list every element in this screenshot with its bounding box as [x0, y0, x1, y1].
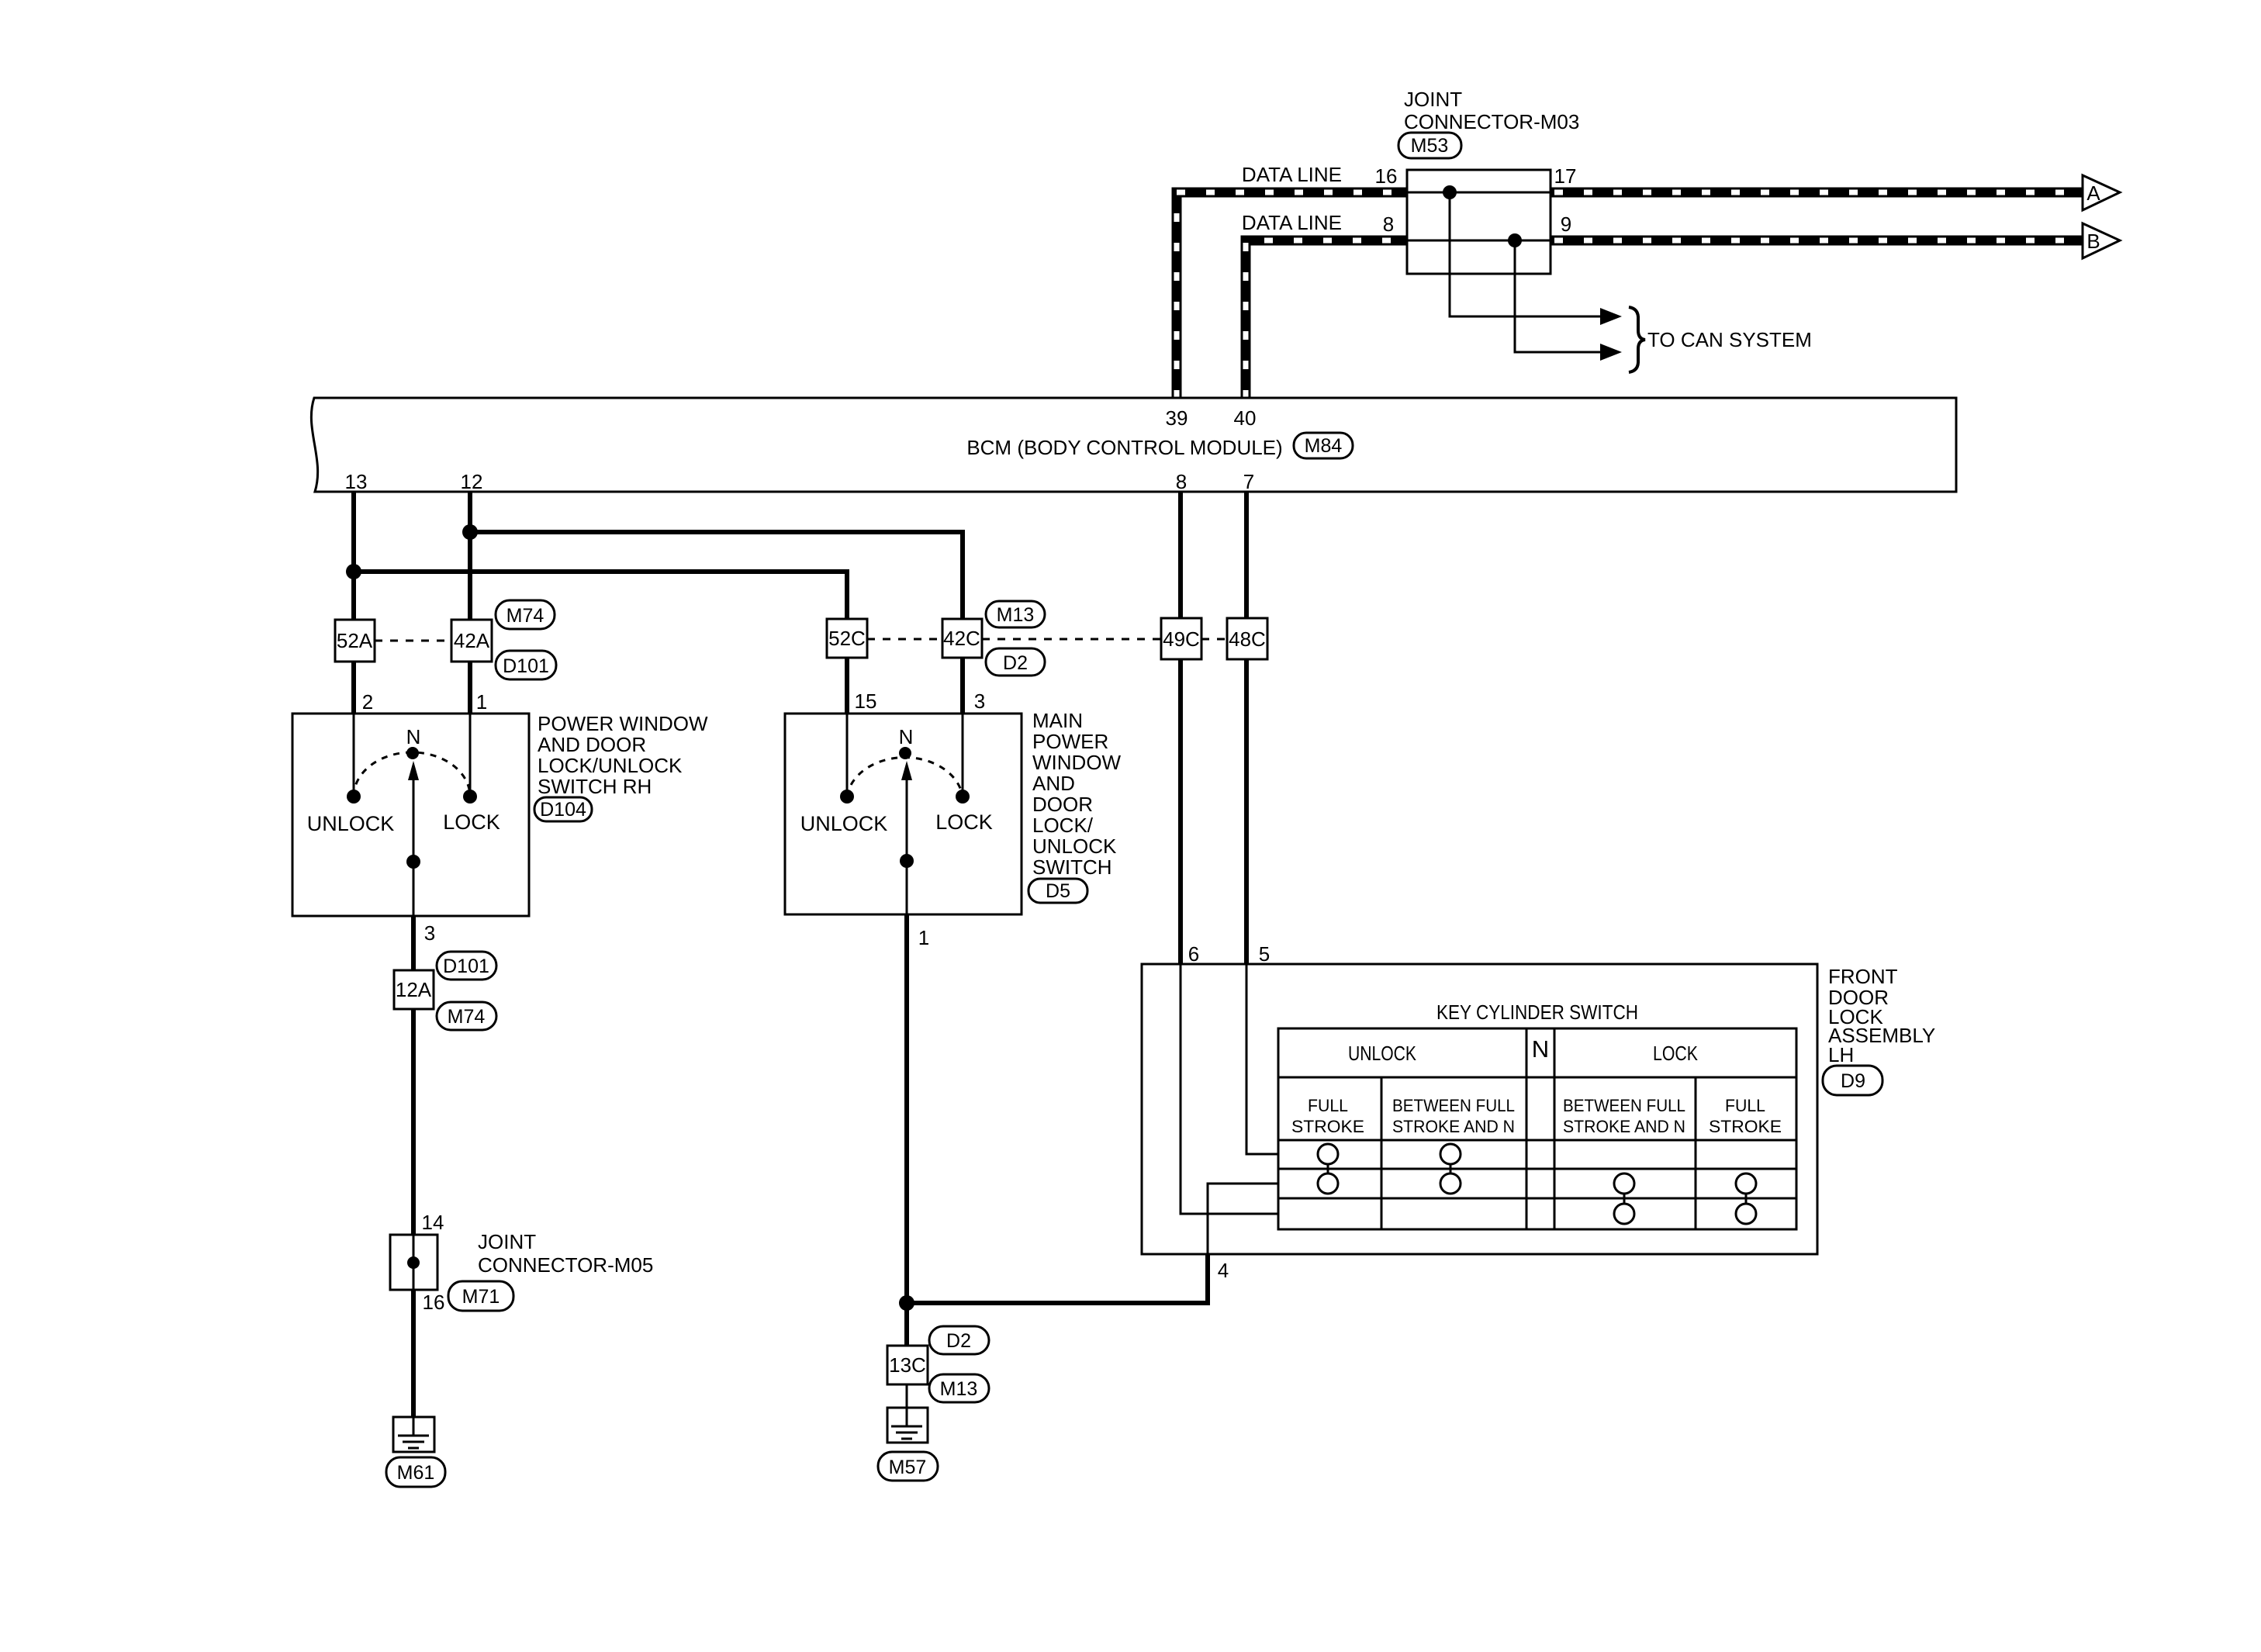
- connector oval D2 (13C): [929, 1326, 989, 1354]
- connector oval M53: [1398, 133, 1461, 158]
- connector oval M84: [1294, 433, 1353, 458]
- contact pair between full stroke and N unlock: [1450, 1154, 1452, 1184]
- connector oval M13: [986, 601, 1045, 627]
- svg-text:M13: M13: [997, 604, 1035, 626]
- connector oval D104: [534, 797, 592, 821]
- node pin13 branch: [346, 564, 361, 579]
- svg-text:STROKE: STROKE: [1709, 1117, 1782, 1136]
- ground symbol M61: [393, 1417, 434, 1452]
- svg-text:13C: 13C: [889, 1353, 926, 1377]
- svg-text:12A: 12A: [396, 978, 432, 1001]
- svg-text:STROKE AND N: STROKE AND N: [1563, 1117, 1685, 1136]
- svg-text:AND DOOR: AND DOOR: [538, 733, 646, 756]
- key cylinder switch table: [1278, 1028, 1796, 1229]
- svg-text:17: 17: [1554, 164, 1577, 188]
- power window and door lock/unlock switch RH box D104: [292, 714, 529, 916]
- svg-text:15: 15: [855, 689, 877, 713]
- node N RH: [406, 747, 419, 759]
- wire to CAN (from line B): [1515, 240, 1600, 352]
- wire pin15 to unlock contact: [846, 714, 849, 797]
- wire 52A to RH switch pin 2: [351, 662, 356, 714]
- svg-text:M74: M74: [448, 1006, 486, 1028]
- svg-text:52A: 52A: [337, 629, 373, 652]
- dashed connector link 42C-49C: [982, 638, 1161, 641]
- svg-text:M13: M13: [940, 1378, 978, 1400]
- unlock contact D5: [840, 790, 854, 804]
- wire pin2 to unlock contact: [353, 714, 355, 797]
- node pin12 branch: [462, 524, 478, 540]
- wire 48C to front door lock assembly pin 5: [1244, 659, 1249, 964]
- wire pin 5 to key cylinder row 1: [1246, 964, 1278, 1154]
- connector oval M61: [386, 1457, 445, 1487]
- connector oval M71: [448, 1281, 513, 1311]
- connector oval D101: [496, 651, 556, 679]
- wire 49C to front door lock assembly pin 6: [1178, 659, 1183, 964]
- svg-text:D101: D101: [503, 655, 549, 677]
- svg-text:STROKE: STROKE: [1291, 1117, 1364, 1136]
- svg-text:1: 1: [476, 690, 487, 714]
- svg-text:42A: 42A: [454, 629, 490, 652]
- common pole RH: [406, 855, 420, 869]
- dashed connector link 52A-42A: [375, 640, 451, 642]
- svg-text:UNLOCK: UNLOCK: [800, 812, 888, 835]
- svg-text:LOCK: LOCK: [935, 810, 993, 834]
- svg-text:FULL: FULL: [1308, 1096, 1348, 1115]
- svg-text:42C: 42C: [943, 627, 980, 650]
- switch arm RH (arrow): [413, 779, 415, 862]
- svg-text:M61: M61: [397, 1462, 435, 1484]
- arrow A (off-page connector): [2083, 175, 2120, 210]
- svg-text:MAIN: MAIN: [1032, 709, 1083, 732]
- svg-text:D2: D2: [946, 1330, 971, 1352]
- lock contact RH: [463, 790, 477, 804]
- wire data line A (shielded, BCM pin 39 to joint connector): [1177, 192, 1406, 399]
- svg-text:16: 16: [1375, 164, 1398, 188]
- svg-text:40: 40: [1234, 406, 1257, 430]
- wire D5 pin 1 to ground M57: [904, 914, 909, 1346]
- node ground junction: [899, 1295, 914, 1311]
- wire pin1 to lock contact: [469, 714, 472, 797]
- svg-text:POWER: POWER: [1032, 730, 1108, 753]
- node inside M05: [407, 1256, 420, 1269]
- node N D5: [899, 747, 911, 759]
- connector oval M74: [496, 600, 555, 629]
- switch throw arc D5: [847, 758, 963, 797]
- svg-text:48C: 48C: [1229, 627, 1266, 651]
- wire pin3 to lock contact: [962, 714, 964, 797]
- wire common pole to pin 1: [906, 861, 908, 914]
- wire branch from pin 13 to 52C: [354, 572, 847, 619]
- svg-text:M74: M74: [506, 605, 545, 627]
- front door lock assembly LH box D9: [1142, 964, 1817, 1254]
- connector terminal 42C: [942, 619, 982, 658]
- wire key cylinder pin 4 to D5 pin 1 wire: [907, 1254, 1208, 1303]
- connector terminal 52C: [827, 619, 867, 658]
- wire common pole to pin 3: [413, 862, 415, 916]
- node on line A: [1443, 185, 1457, 199]
- switch arm D5 (arrow): [906, 779, 908, 861]
- wire RH pin 3 to ground M61: [411, 916, 416, 1417]
- wire 42C to D5 pin 3: [960, 658, 965, 714]
- connector terminal 48C: [1227, 618, 1267, 659]
- ground symbol M57: [887, 1408, 928, 1443]
- svg-text:D101: D101: [443, 956, 489, 977]
- arrow B (off-page connector): [2083, 223, 2120, 258]
- svg-text:JOINT: JOINT: [1404, 88, 1462, 111]
- dashed connector link 52C-42C: [867, 638, 942, 641]
- svg-text:UNLOCK: UNLOCK: [307, 812, 395, 835]
- BCM (body control module) box M84: [311, 398, 1956, 492]
- svg-text:WINDOW: WINDOW: [1032, 751, 1122, 774]
- connector oval D9: [1823, 1066, 1882, 1095]
- connector terminal 52A: [335, 620, 375, 662]
- svg-text:LH: LH: [1828, 1043, 1854, 1066]
- svg-text:SWITCH: SWITCH: [1032, 855, 1112, 879]
- svg-text:52C: 52C: [828, 627, 866, 650]
- svg-text:FULL: FULL: [1725, 1096, 1765, 1115]
- wire inside M53 (line A): [1407, 192, 1551, 194]
- dashed connector link 49C-48C: [1201, 638, 1227, 641]
- wire BCM pin 13 to 52A: [351, 492, 356, 620]
- svg-text:5: 5: [1259, 942, 1270, 966]
- wire 42A to RH switch pin 1: [468, 662, 472, 714]
- wire to CAN (from line A): [1450, 192, 1600, 316]
- svg-text:N: N: [899, 725, 914, 748]
- wire pin 6 to key cylinder row 3: [1181, 964, 1278, 1214]
- unlock contact RH: [347, 790, 361, 804]
- wire branch from pin 12 to 42C: [470, 532, 963, 619]
- svg-text:BETWEEN FULL: BETWEEN FULL: [1392, 1096, 1515, 1115]
- svg-text:SWITCH RH: SWITCH RH: [538, 775, 652, 798]
- svg-text:3: 3: [424, 921, 435, 945]
- connector oval M13 (13C): [929, 1374, 989, 1402]
- svg-text:6: 6: [1188, 942, 1199, 966]
- svg-text:16: 16: [423, 1291, 445, 1314]
- svg-text:14: 14: [422, 1211, 444, 1234]
- svg-text:DOOR: DOOR: [1032, 793, 1093, 816]
- svg-text:39: 39: [1166, 406, 1188, 430]
- wire data line B (shielded, BCM pin 40 to joint connector): [1246, 240, 1406, 399]
- svg-text:CONNECTOR-M05: CONNECTOR-M05: [478, 1253, 653, 1277]
- svg-text:M84: M84: [1305, 435, 1343, 457]
- svg-text:8: 8: [1383, 213, 1394, 236]
- svg-text:AND: AND: [1032, 772, 1075, 795]
- node on line B: [1508, 233, 1522, 247]
- wire data line A (joint connector to arrow A): [1551, 188, 2083, 198]
- wire BCM pin 8 to 49C: [1178, 492, 1183, 618]
- svg-text:FRONT: FRONT: [1828, 965, 1898, 988]
- wire 13C to ground: [906, 1384, 908, 1408]
- svg-text:12: 12: [461, 470, 483, 493]
- svg-text:D9: D9: [1841, 1070, 1865, 1092]
- svg-text:LOCK/UNLOCK: LOCK/UNLOCK: [538, 754, 683, 777]
- svg-text:DATA LINE: DATA LINE: [1242, 163, 1342, 186]
- svg-text:BETWEEN FULL: BETWEEN FULL: [1563, 1096, 1685, 1115]
- svg-text:STROKE AND N: STROKE AND N: [1392, 1117, 1515, 1136]
- svg-text:9: 9: [1561, 213, 1571, 236]
- contact pair full stroke lock: [1745, 1184, 1748, 1214]
- svg-text:D104: D104: [540, 799, 586, 821]
- svg-text:D5: D5: [1046, 880, 1070, 902]
- svg-text:2: 2: [362, 690, 373, 714]
- svg-text:UNLOCK: UNLOCK: [1348, 1042, 1417, 1065]
- connector oval D5: [1029, 879, 1087, 903]
- switch throw arc RH: [354, 752, 470, 797]
- connector terminal 13C: [887, 1346, 928, 1384]
- connector terminal 42A: [451, 620, 492, 662]
- svg-text:B: B: [2086, 230, 2100, 253]
- svg-text:N: N: [1532, 1035, 1549, 1063]
- connector terminal 49C: [1161, 618, 1201, 659]
- svg-text:N: N: [406, 725, 421, 748]
- joint connector M53 box: [1407, 170, 1551, 274]
- svg-text:1: 1: [918, 926, 929, 949]
- connector oval D101 (12A): [437, 952, 496, 980]
- svg-text:A: A: [2086, 181, 2100, 205]
- svg-text:POWER WINDOW: POWER WINDOW: [538, 712, 708, 735]
- lock contact D5: [956, 790, 970, 804]
- svg-text:49C: 49C: [1163, 627, 1200, 651]
- wire inside M53 (line B): [1407, 240, 1551, 242]
- svg-text:JOINT: JOINT: [478, 1230, 536, 1253]
- connector oval D2: [986, 648, 1045, 676]
- connector oval M74 (12A): [437, 1002, 496, 1030]
- wire 52C to D5 pin 15: [845, 658, 849, 714]
- svg-text:D2: D2: [1003, 652, 1028, 674]
- wire key cylinder row 2 to pin 4: [1208, 1184, 1278, 1254]
- svg-text:KEY CYLINDER SWITCH: KEY CYLINDER SWITCH: [1436, 1001, 1638, 1024]
- svg-text:LOCK: LOCK: [443, 810, 500, 834]
- svg-text:LOCK: LOCK: [1653, 1042, 1699, 1065]
- svg-text:LOCK/: LOCK/: [1032, 814, 1094, 837]
- contact pair between full stroke and N lock: [1623, 1184, 1626, 1214]
- svg-text:M71: M71: [462, 1286, 500, 1308]
- svg-text:UNLOCK: UNLOCK: [1032, 835, 1117, 858]
- connector oval M57: [878, 1452, 938, 1481]
- svg-text:4: 4: [1218, 1259, 1229, 1282]
- svg-text:13: 13: [345, 470, 368, 493]
- svg-text:DATA LINE: DATA LINE: [1242, 211, 1342, 234]
- svg-text:CONNECTOR-M03: CONNECTOR-M03: [1404, 110, 1579, 133]
- contact pair full stroke unlock: [1327, 1154, 1329, 1184]
- wire data line B (joint connector to arrow B): [1551, 236, 2083, 246]
- svg-text:3: 3: [974, 689, 985, 713]
- brace to CAN system: [1629, 307, 1645, 372]
- wire BCM pin 12 to 42A: [468, 492, 472, 620]
- wire BCM pin 7 to 48C: [1244, 492, 1249, 618]
- joint connector M05 box: [390, 1235, 437, 1290]
- svg-text:M53: M53: [1411, 135, 1449, 157]
- svg-text:TO CAN SYSTEM: TO CAN SYSTEM: [1647, 328, 1812, 351]
- svg-text:M57: M57: [889, 1457, 927, 1478]
- svg-text:8: 8: [1176, 470, 1187, 493]
- svg-text:7: 7: [1243, 470, 1254, 493]
- connector terminal 12A: [394, 970, 434, 1009]
- common pole D5: [900, 854, 914, 868]
- svg-text:BCM (BODY CONTROL MODULE): BCM (BODY CONTROL MODULE): [966, 436, 1282, 459]
- main power window and door lock/unlock switch box D5: [785, 714, 1022, 914]
